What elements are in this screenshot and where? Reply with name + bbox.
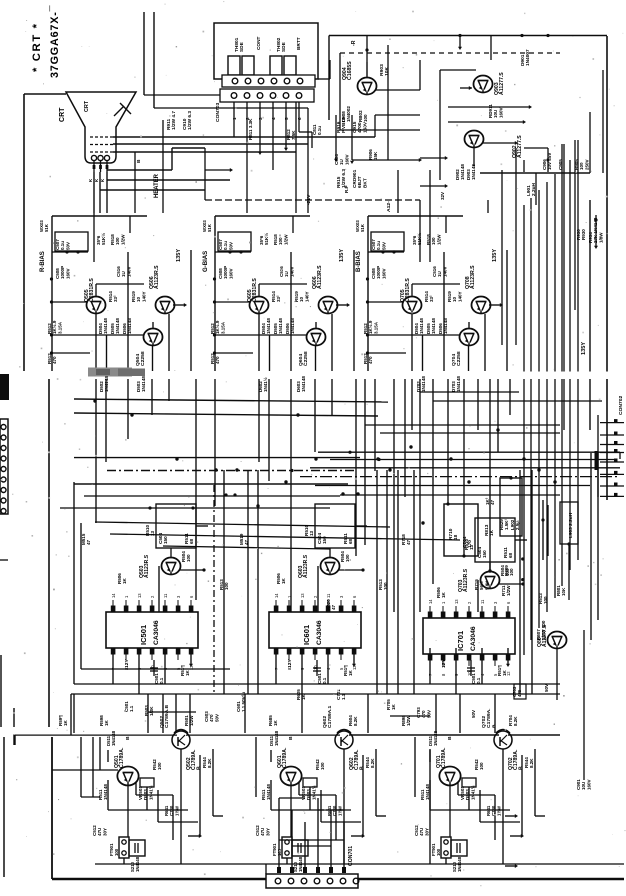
wire [411,314,413,371]
label C512 [92,825,107,836]
wire [413,470,415,694]
svg-text:140Y: 140Y [141,291,146,302]
wire [368,215,463,217]
label Q502lbl [159,704,170,728]
wire [535,173,537,205]
wire [338,568,365,571]
label WX03 51K [39,220,49,232]
wire [521,755,523,836]
svg-text:R911: R911 [166,119,172,130]
wire [498,582,525,585]
svg-text:8.2K: 8.2K [353,716,358,726]
label R512 [210,320,225,334]
wire [173,303,187,307]
svg-text:3.15A: 3.15A [373,321,378,334]
svg-text:1K: 1K [281,577,286,584]
svg-text:1N4148: 1N4148 [278,318,283,334]
wire [127,786,129,837]
svg-text:1K: 1K [348,669,353,676]
svg-text:470: 470 [215,356,220,364]
wire [494,795,496,840]
junction dot [213,277,216,280]
wire [214,216,216,371]
junction dots4 [509,476,570,545]
text IC601 [302,625,311,645]
wire [480,172,590,174]
CRT cathode pins [91,155,109,172]
label WX03 51K [355,220,365,232]
wire [275,648,277,684]
wire [439,70,441,180]
CON701 pins [277,867,346,873]
label Q605 [247,278,258,302]
wire [213,351,253,354]
ft box [441,837,451,858]
label Q603 [298,554,309,578]
bus wire [420,391,519,393]
svg-text:1/2W: 1/2W [283,234,288,245]
svg-text:C1789A.: C1789A. [441,747,447,768]
wire [577,140,579,560]
svg-text:1K: 1K [273,719,278,726]
wire [307,144,309,213]
svg-text:C1789A.: C1789A. [119,747,125,768]
svg-text:C2258: C2258 [140,351,146,366]
label D511 [269,730,279,746]
label R641 [164,805,179,816]
wire [589,112,591,173]
transistor Q604 [306,329,325,346]
text KR KG KB [88,178,105,182]
label 12V [124,658,130,668]
svg-text:CONT: CONT [256,36,262,50]
transistor Q701 [439,767,460,786]
wire [153,12,155,108]
transistor Q904 [357,78,376,95]
wire [299,782,336,795]
ft cap box [292,840,308,856]
label C811 [312,124,322,135]
label R542 100 [474,759,484,770]
wire [484,314,486,371]
label R510 13 [304,525,314,536]
wire [508,734,560,736]
wire [105,379,107,462]
text CA3046 [153,620,160,645]
label Q702lbl [481,708,497,728]
resistor box [303,778,317,787]
wire [268,379,270,481]
wire [246,112,248,160]
connector CON701 [266,874,359,888]
wire [270,750,272,762]
svg-text:CA3046: CA3046 [470,626,477,651]
svg-text:1N41½: 1N41½ [262,377,268,392]
wire [530,198,532,640]
label R511 68 [184,533,194,544]
junction dot [366,277,369,280]
svg-text:1N4148: 1N4148 [301,376,306,392]
svg-text:A11277.S: A11277.S [499,72,505,95]
label C905 [558,159,563,170]
svg-text:1N4148: 1N4148 [421,376,426,392]
svg-text:140V: 140V [442,266,447,277]
wire [151,379,153,415]
wire [336,303,350,307]
wire [352,158,422,162]
wire [265,864,267,874]
label C504 [317,533,327,544]
ft cap box [451,840,467,856]
text B-BIAS [356,251,362,272]
svg-text:150: 150 [482,550,487,558]
svg-text:SDE: SDE [281,42,287,52]
svg-text:135Y: 135Y [339,249,345,262]
label R710 18 [448,528,459,540]
label Q604 [298,351,309,366]
wire [205,148,420,200]
label C901 [576,779,591,790]
wire [574,140,576,310]
wire [93,189,95,191]
resistor network box [444,504,478,556]
label WX03 51K [202,220,212,232]
transistor Q801 [547,632,566,649]
label 135V [176,249,182,262]
IC IC601 [269,612,361,648]
label R506 1K [117,573,127,584]
CRT funnel [66,92,136,163]
label C915 [352,121,368,133]
svg-text:47: 47 [406,539,411,545]
label D602 [258,377,268,392]
bus wire [95,522,390,527]
black box left [0,374,9,400]
transistor Q603 [320,558,339,575]
label R504 100 [340,551,350,562]
wire [309,787,311,810]
label R506 1K [276,573,286,584]
wire [352,648,356,667]
svg-text:8.2K: 8.2K [370,758,375,768]
label D505 [273,318,283,334]
label Q703 [458,568,469,592]
wire [440,69,476,71]
wire [134,152,136,213]
svg-text:A11277.S: A11277.S [542,624,548,647]
wire [0,559,8,561]
wire [93,213,95,262]
IC pins [428,599,511,676]
label C516 [116,266,131,277]
wire [172,795,174,840]
svg-text:A1123R.S: A1123R.S [463,568,469,592]
svg-text:51K½: 51K½ [416,233,422,245]
svg-text:1N4148: 1N4148 [103,318,108,334]
wire [376,470,378,694]
svg-text:18: 18 [453,534,459,540]
svg-text:150: 150 [163,536,168,544]
wire [213,485,215,694]
svg-text:IC501: IC501 [139,625,148,645]
wire [502,749,504,864]
label R514 [424,291,434,302]
wire [272,112,274,170]
svg-text:50V: 50V [471,710,476,718]
svg-text:1½W: 1½W [496,805,501,816]
svg-text:A12-: A12- [386,201,392,212]
svg-text:140Y: 140Y [304,291,309,302]
label C910 [182,111,193,130]
transistor Q501 [117,767,138,786]
svg-text:100: 100 [436,848,441,856]
label Q701 [436,747,447,768]
svg-text:1N4148: 1N4148 [298,856,303,872]
wire [113,136,375,138]
svg-text:47: 47 [331,604,336,610]
IC IC501 [106,612,198,648]
svg-text:1K½.9: 1K½.9 [214,320,220,334]
label Q904 [342,61,353,80]
wire [375,115,420,137]
svg-text:150: 150 [322,536,327,544]
label C503 [204,711,219,722]
wire [189,694,191,733]
bus wire [380,432,560,434]
label TH802 [276,37,287,52]
svg-text:0.1: 0.1 [322,677,327,684]
label D506 [285,318,295,334]
wire [368,250,404,253]
wire [152,346,154,371]
label R715 56 [474,579,489,590]
transistor Q601 [280,767,301,786]
wire [554,174,556,598]
wire [366,351,406,354]
svg-text:470: 470 [368,356,373,364]
wire [290,379,292,612]
svg-text:4700: 4700 [357,122,363,133]
terminal strip1 [222,75,315,87]
svg-text:50V: 50V [65,242,70,250]
svg-text:A1123R.S: A1123R.S [303,554,309,578]
svg-text:470: 470 [517,689,522,697]
label R516 [497,665,507,676]
svg-text:8.2K: 8.2K [513,716,518,726]
label D902 [455,164,465,180]
connector pin [600,459,624,463]
label S210 [452,856,462,872]
wire [70,694,72,735]
transistor Q902 [464,131,483,148]
wire [180,749,182,864]
svg-text:10K: 10K [384,66,390,76]
wire [112,648,114,684]
wire [343,822,345,867]
wire [583,630,585,780]
wire [213,300,250,303]
label R514 [108,291,118,302]
label C516 [279,266,294,277]
label C904 [334,154,349,165]
label R905 [574,159,589,170]
wire [590,453,592,640]
wire [339,53,341,130]
text * CRT * [31,22,43,72]
svg-text:CON701: CON701 [348,846,354,866]
label R512 [47,320,62,334]
label R504 100 [500,565,510,576]
text CA3046 [316,620,323,645]
label Q902 [512,135,523,158]
svg-text:3.15A: 3.15A [220,321,225,334]
svg-text:CRT: CRT [84,100,90,112]
text CRT [59,107,66,122]
label R512 [363,320,378,334]
label R6x [268,715,278,726]
label R934 [588,217,603,243]
scan gap band 2 [0,727,342,735]
wire [48,379,50,733]
scan smudge [88,368,145,377]
wire [92,737,94,797]
wire [152,322,154,328]
label C508 [371,266,386,279]
wire [52,769,118,771]
svg-text:13: 13 [137,593,142,598]
label R512c [219,579,229,590]
svg-text:1.1: 1.1 [341,693,346,700]
wire [429,648,431,684]
svg-text:A11277.S: A11277.S [517,135,523,158]
label D506 [438,318,448,334]
svg-text:135Y: 135Y [176,249,182,262]
svg-text:R813: R813 [484,524,490,536]
label R641 [327,805,342,816]
label C516 [432,266,447,277]
svg-text:160V: 160V [65,268,70,279]
svg-text:100: 100 [224,582,229,590]
transistor Q506 [155,297,174,314]
label R511 [98,784,108,800]
wire arrow [334,115,338,162]
label R512b [363,353,373,364]
wire [468,346,470,371]
svg-text:1N4148: 1N4148 [141,376,146,392]
svg-text:100: 100 [543,596,548,604]
wire [162,694,164,733]
svg-text:30Y: 30Y [424,828,429,836]
wire [271,780,351,810]
label R512c [538,593,548,604]
label R542 100 [315,759,325,770]
wire [73,482,75,684]
wire [340,129,420,131]
transistor Q704 [459,329,478,346]
wire [331,379,333,415]
svg-text:33²: 33² [113,295,118,302]
wire [179,568,206,571]
wire [127,252,129,371]
wire [489,303,503,307]
label C701 [336,689,346,700]
svg-text:IC701: IC701 [456,631,465,651]
svg-text:B: B [136,159,142,163]
wire [148,711,196,713]
wire [52,878,624,881]
svg-text:1/8W: 1/8W [598,232,603,243]
svg-text:51K: 51K [207,223,212,232]
svg-text:C1789A.: C1789A. [282,747,288,768]
wire [317,566,319,612]
label D504 [414,318,424,334]
wire [80,523,82,669]
svg-text:1/2W 6.3: 1/2W 6.3 [341,169,347,188]
svg-text:1K: 1K [391,703,396,710]
capacitor C703 box [514,684,526,699]
label Q502 [186,749,202,770]
wire [190,250,192,371]
svg-text:B: B [447,736,453,740]
svg-text:140V: 140V [126,266,131,277]
label dots [520,34,549,37]
wire [123,858,125,864]
wire [468,787,470,810]
svg-text:140V: 140V [289,266,294,277]
junction dot [50,277,53,280]
svg-text:C1685S: C1685S [347,61,353,80]
wire [214,379,216,506]
label C512 [255,825,270,836]
bus wire [300,476,620,478]
wire [506,250,508,371]
connector pin [600,493,624,497]
svg-text:1N4148: 1N4148 [419,318,424,334]
transistor Q702 [494,730,512,750]
bus wire [310,467,620,469]
connector pin [600,483,624,487]
wire [547,505,549,556]
wire arrow [351,834,365,838]
wire [568,544,570,600]
wire [429,213,431,262]
bus wire [84,495,340,497]
connector pin [600,441,624,445]
svg-text:0.1: 0.1 [476,677,481,684]
label C764 170 [462,536,473,548]
bus wire [365,424,560,426]
wire [556,649,558,700]
label 1K3 [485,497,495,505]
label Q503 [139,554,150,578]
svg-text:1K: 1K [502,669,507,676]
label R711 12W [501,585,511,596]
wire [3,737,5,877]
wire [51,216,53,371]
label C703 470 [512,686,522,697]
label VR501 [301,785,316,800]
wire [100,172,205,190]
wire [107,744,109,746]
label C501b [124,701,134,712]
label C501 0.1 [471,673,481,684]
wire [515,148,517,345]
wire [136,782,173,795]
wire [50,351,90,354]
wire [329,35,607,37]
label R811 [248,118,253,140]
svg-text:R916: R916 [336,121,342,133]
